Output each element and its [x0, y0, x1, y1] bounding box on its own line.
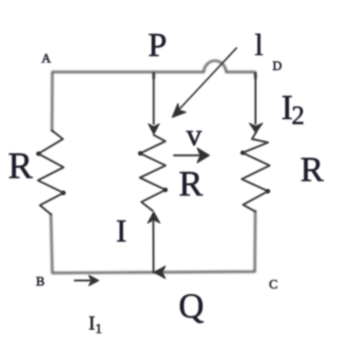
svg-text:Q: Q: [179, 287, 204, 326]
wire middle vertical from P: [153, 72, 155, 78]
svg-text:l: l: [255, 27, 264, 62]
arrowhead middle branch down: [148, 124, 159, 134]
svg-text:I: I: [116, 212, 127, 248]
arrowhead diagonal current 1: [172, 104, 186, 118]
svg-text:B: B: [36, 274, 45, 289]
arrow line I1 bottom left: [75, 280, 91, 282]
wire hop to D corner + right vertical: [226, 72, 255, 78]
junction dot left resistor upper vertex: [37, 152, 40, 155]
svg-text:v: v: [186, 117, 202, 152]
arrowhead v right: [197, 148, 209, 163]
resistor R middle: [140, 135, 166, 211]
svg-text:D: D: [273, 58, 282, 73]
svg-text:C: C: [269, 276, 278, 291]
junction dot middle resistor upper vertex: [139, 152, 142, 155]
svg-text:I1: I1: [89, 313, 103, 338]
wire hop over diagonal: [204, 61, 227, 72]
wire middle resistor to bottom: [152, 214, 154, 272]
arrow line v: [174, 154, 200, 156]
junction dot right resistor lower vertex: [266, 190, 269, 193]
arrowhead right branch down: [249, 123, 262, 133]
resistor R right: [242, 133, 270, 212]
svg-text:I2: I2: [281, 88, 304, 130]
svg-text:A: A: [42, 51, 52, 66]
svg-text:R: R: [179, 164, 203, 204]
wire left resistor down, bottom wire B to C, up to right resistor: [51, 212, 255, 274]
junction dot middle resistor lower vertex: [164, 188, 167, 191]
junction dot right resistor upper vertex: [241, 151, 244, 154]
wire left vertical + top wire A to hop: [52, 72, 204, 131]
arrow shaft right branch: [255, 73, 257, 124]
arrow shaft middle branch: [153, 73, 155, 124]
junction dot left resistor lower vertex: [62, 191, 65, 194]
svg-text:P: P: [148, 27, 167, 64]
svg-text:R: R: [8, 146, 33, 187]
resistor R left: [38, 131, 64, 215]
arrow line current 1 diagonal: [177, 48, 237, 112]
arrowhead I1 small right: [89, 275, 99, 285]
arrowhead current I up: [148, 212, 160, 223]
svg-text:R: R: [300, 150, 324, 189]
arrowhead bottom wire pointing left at junction: [154, 266, 165, 278]
